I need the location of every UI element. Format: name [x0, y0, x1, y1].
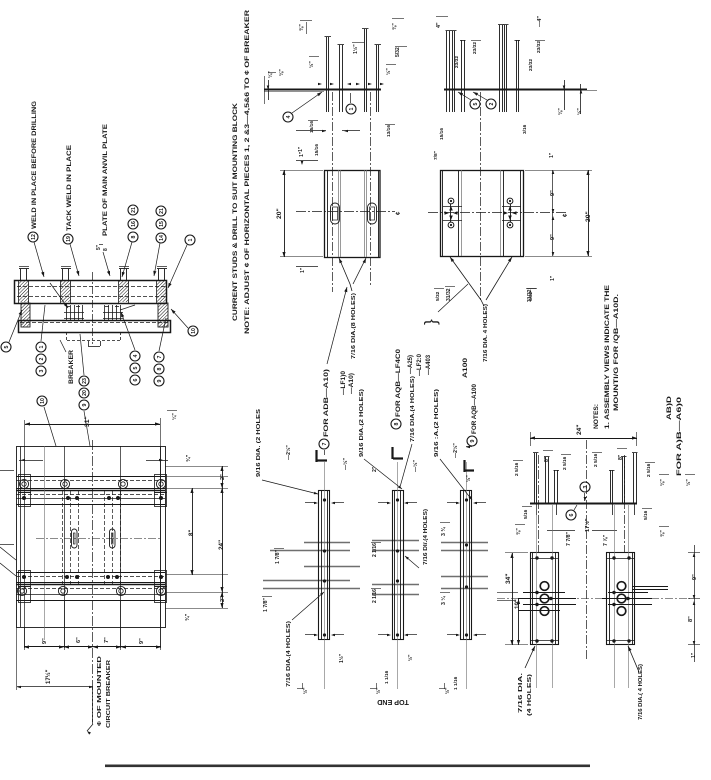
leader to 4 holes label right channel	[628, 646, 639, 672]
washer bolts row1	[19, 479, 28, 488]
svg-text:—A10): —A10)	[349, 373, 355, 394]
right vertical post	[158, 303, 168, 327]
svg-text:5: 5	[473, 102, 479, 105]
strip plate at x=319	[319, 491, 330, 640]
svg-text:¾": ¾"	[185, 454, 192, 462]
strip plate at x=461	[461, 491, 472, 640]
svg-text:¢ OF MOUNTED: ¢ OF MOUNTED	[97, 656, 103, 726]
svg-text:3 ¾: 3 ¾	[440, 527, 447, 536]
breaker stud cluster left	[66, 305, 68, 321]
arrow ticks at top corners	[19, 460, 43, 462]
horizontal centerline through slots	[36, 538, 160, 540]
bottom dim 1 inch	[296, 266, 318, 268]
center dash-dot vertical	[480, 92, 482, 300]
center dash-dot lines	[332, 92, 334, 292]
svg-text:6: 6	[133, 378, 139, 381]
svg-text:2 5/16: 2 5/16	[646, 463, 652, 477]
svg-text:23/32: 23/32	[536, 41, 542, 53]
balloon 9 label block	[467, 436, 477, 446]
strip bottom arrows	[305, 634, 316, 636]
angle assembly baseline	[530, 503, 637, 505]
svg-text:5: 5	[133, 366, 139, 369]
svg-text:BREAKER: BREAKER	[69, 349, 75, 384]
svg-text:7/8": 7/8"	[433, 151, 439, 160]
slot A in plan	[72, 529, 78, 548]
svg-text:CIRCUIT BREAKER: CIRCUIT BREAKER	[106, 659, 112, 728]
channel piece 2 rect	[441, 171, 524, 257]
svg-text:9: 9	[82, 403, 88, 406]
svg-text:(4 HOLES): (4 HOLES)	[527, 674, 533, 716]
svg-text:20": 20"	[585, 211, 592, 222]
washer bolts row4	[17, 586, 26, 595]
svg-text:1: 1	[39, 345, 45, 348]
breaker dashed outline	[66, 332, 68, 341]
horizontal dashed centerline channels	[497, 598, 690, 600]
svg-text:7 ⅞": 7 ⅞"	[603, 534, 609, 546]
bar3	[16, 572, 165, 574]
svg-text:7: 7	[322, 442, 328, 445]
view A: main horizontal bar (welded channel, side view)	[15, 281, 167, 304]
channel 2 bottom right	[607, 553, 635, 645]
svg-text:15/16: 15/16	[314, 144, 320, 156]
svg-text:15/16: 15/16	[309, 121, 315, 133]
leader from 9/16 mid label to strip3	[440, 459, 472, 500]
svg-text:½": ½"	[375, 687, 382, 694]
bolt dots row2	[22, 496, 26, 500]
balloon 10 right of assembly	[188, 326, 198, 336]
svg-text:½": ½"	[308, 61, 315, 68]
svg-text:½": ½"	[576, 108, 583, 115]
svg-text:9": 9"	[139, 638, 145, 644]
svg-text:½": ½"	[685, 479, 692, 486]
bar1 top channel flange	[16, 476, 165, 478]
balloon 6	[566, 510, 576, 520]
svg-text:8: 8	[103, 248, 109, 251]
dim 17-1/2 bottom	[16, 627, 18, 690]
leader line to anvil	[120, 305, 135, 310]
dim 20 inch left	[284, 170, 286, 257]
horizontal chain extension lines ch2	[608, 592, 648, 594]
svg-text:1": 1"	[550, 275, 556, 281]
svg-text:9": 9"	[692, 574, 698, 580]
svg-text:1": 1"	[299, 151, 305, 157]
balloon 5 at left edge	[1, 342, 11, 352]
stud pair lines above angle	[326, 37, 328, 112]
svg-text:7/16 DIA.: 7/16 DIA.	[518, 672, 524, 713]
svg-text:6": 6"	[76, 637, 82, 643]
svg-text:10: 10	[191, 328, 197, 334]
horizontal centerline of channel	[296, 211, 395, 213]
channel horizontal centerline	[428, 212, 568, 214]
horizontal chain extension lines ch1	[523, 592, 565, 594]
assembly studs verticals	[534, 453, 536, 503]
svg-text:3: 3	[583, 485, 589, 488]
leader lines to 8-holes note	[339, 258, 350, 284]
balloon 10 above plan view	[37, 396, 47, 406]
leader to 4 holes label left channel	[525, 646, 535, 668]
svg-text:1 1/16: 1 1/16	[384, 670, 390, 684]
piece 5 angle top edge line	[444, 89, 587, 91]
dim 34 left	[512, 553, 514, 645]
svg-text:1: 1	[188, 238, 194, 241]
svg-text:2": 2"	[220, 474, 226, 480]
svg-text:5/32: 5/32	[395, 47, 401, 57]
svg-text:7 7/8": 7 7/8"	[566, 531, 572, 546]
svg-text:10": 10"	[514, 599, 521, 609]
svg-text:—2½": —2½"	[452, 443, 459, 458]
svg-text:7": 7"	[104, 637, 110, 643]
left bolt plates	[19, 475, 31, 493]
svg-text:9": 9"	[550, 234, 556, 240]
svg-text:WELD IN PLACE BEFORE DRILLING: WELD IN PLACE BEFORE DRILLING	[32, 101, 38, 229]
strip bottom arrows	[378, 634, 389, 636]
svg-text:34": 34"	[505, 574, 512, 584]
balloon column 4 5 6	[130, 351, 140, 361]
svg-text:19: 19	[66, 236, 72, 242]
svg-text:⅜": ⅜"	[660, 530, 666, 537]
svg-text:½": ½"	[302, 687, 309, 694]
svg-text:3/16: 3/16	[522, 124, 528, 134]
svg-text:—4": —4"	[537, 16, 543, 27]
svg-text:⅜": ⅜"	[516, 528, 522, 535]
angle glyph symbols above strips	[315, 450, 317, 462]
svg-text:TACK WELD IN PLACE: TACK WELD IN PLACE	[67, 145, 73, 231]
svg-text:1": 1"	[298, 146, 304, 152]
svg-text:3 ¼: 3 ¼	[440, 596, 447, 605]
hatched weld zones on bar	[19, 281, 29, 302]
svg-text:9: 9	[470, 439, 476, 442]
gray horizontal piece lines band upper	[304, 542, 350, 544]
slot B in plan	[110, 529, 116, 548]
svg-text:9/16 :A.(2 HOLES): 9/16 :A.(2 HOLES)	[434, 389, 440, 457]
svg-text:23/32: 23/32	[454, 56, 460, 68]
svg-text:⅛": ⅛"	[558, 108, 564, 115]
balloon 1	[346, 104, 356, 114]
channel piece 1 rect (20 inch)	[325, 171, 381, 258]
svg-text:1": 1"	[691, 652, 697, 658]
dim 8 right	[192, 488, 194, 575]
svg-text:1": 1"	[549, 152, 555, 158]
strip top arrows	[447, 502, 458, 504]
balloon column 14 15 21	[156, 233, 166, 243]
svg-text:8": 8"	[618, 454, 624, 460]
svg-text:23/32: 23/32	[528, 59, 534, 71]
balloon 3	[580, 482, 590, 492]
svg-text:½": ½"	[407, 654, 414, 661]
svg-text:AB)D: AB)D	[667, 395, 673, 420]
svg-text:⅜": ⅜"	[299, 24, 305, 31]
svg-text:¾": ¾"	[184, 613, 191, 621]
svg-text:5": 5"	[96, 244, 102, 250]
gray horizontal piece lines band lower	[304, 566, 360, 568]
balloon column 1 2 3 lower left	[36, 342, 46, 352]
svg-text:2": 2"	[220, 596, 226, 602]
dim 2 bottom right	[222, 592, 224, 608]
svg-text:7/16 DIA.( 4 HOLES): 7/16 DIA.( 4 HOLES)	[638, 664, 644, 720]
plan center dash-dot vertical	[92, 440, 94, 722]
svg-text:31/32: 31/32	[446, 288, 452, 301]
short verticals below baseline	[536, 504, 538, 515]
svg-text:21: 21	[131, 207, 137, 213]
strip bottom arrows	[447, 634, 458, 636]
svg-text:1 7/8": 1 7/8"	[263, 597, 269, 612]
svg-text:¼": ¼"	[171, 413, 178, 420]
bolt dots row3	[22, 575, 26, 579]
leader from 9/16 label to strip2	[364, 459, 402, 489]
svg-text:23/32: 23/32	[472, 42, 478, 54]
svg-text:2 5/16: 2 5/16	[562, 456, 568, 470]
balloon 7 label block	[319, 439, 329, 449]
svg-text:2 5/16: 2 5/16	[514, 462, 520, 476]
left stub lines	[497, 592, 518, 594]
svg-text:2 1/16: 2 1/16	[372, 589, 378, 603]
svg-text:½": ½"	[444, 687, 451, 694]
balloon 12 with label WELD IN PLACE BEFORE DRILLING	[28, 232, 38, 242]
diagonal leader left edge	[0, 563, 16, 576]
svg-text:¼": ¼"	[267, 71, 274, 78]
strip top arrows	[305, 502, 316, 504]
svg-text:½": ½"	[465, 475, 472, 482]
svg-text:7/16 DI/.(4 HOLES): 7/16 DI/.(4 HOLES)	[423, 509, 429, 565]
svg-text:9: 9	[157, 379, 163, 382]
slot right in channel	[368, 203, 377, 224]
hole chain right bar	[507, 198, 513, 204]
svg-text:2 1/16: 2 1/16	[372, 543, 378, 557]
svg-text:9": 9"	[550, 190, 556, 196]
right dim column 9 8 1	[694, 545, 696, 662]
svg-text:⅜": ⅜"	[392, 23, 398, 30]
svg-text:7/16 DIA.(4 HOLES): 7/16 DIA.(4 HOLES)	[410, 376, 416, 442]
svg-text:FOR ADB—A10): FOR ADB—A10)	[323, 369, 330, 437]
slot left in channel	[331, 203, 340, 224]
svg-text:5/32: 5/32	[435, 291, 441, 301]
svg-text:1½": 1½"	[338, 653, 345, 663]
left vertical post	[21, 303, 30, 327]
leader line from stud cluster left	[50, 283, 68, 308]
piece 4 angle top edge line	[264, 89, 381, 91]
svg-text:31/32: 31/32	[527, 289, 533, 302]
svg-text:9": 9"	[42, 638, 48, 644]
vertical strip B dashed	[104, 491, 106, 585]
dash-dot verticals down to channels	[538, 455, 540, 553]
left bolt plates lower	[19, 571, 31, 587]
svg-text:1½": 1½"	[352, 44, 359, 54]
svg-text:17½": 17½"	[45, 669, 52, 684]
svg-text:8": 8"	[188, 530, 195, 536]
vertical strip A dashed	[62, 491, 64, 585]
svg-text:5: 5	[4, 345, 10, 348]
svg-text:8: 8	[131, 235, 137, 238]
svg-text:23: 23	[82, 378, 88, 384]
balloon column 7 8 9	[154, 352, 164, 362]
dim 2 top right	[222, 466, 224, 488]
svg-text:7/16 DIA.(8 HOLES): 7/16 DIA.(8 HOLES)	[351, 293, 357, 359]
svg-text:5/16: 5/16	[643, 510, 649, 520]
svg-text:24": 24"	[576, 425, 583, 435]
svg-text:1": 1"	[300, 267, 306, 273]
svg-text:FOR A)B—A6)0: FOR A)B—A6)0	[677, 396, 683, 476]
svg-text:4": 4"	[436, 22, 442, 28]
svg-text:16: 16	[131, 221, 137, 227]
anvil plate (lower bar)	[19, 321, 171, 333]
hole chain left bar	[448, 198, 454, 204]
svg-text:2 5/16: 2 5/16	[593, 453, 599, 467]
balloon 8 label block	[391, 419, 401, 429]
svg-text:2: 2	[39, 357, 45, 360]
dim 10 left	[518, 599, 520, 645]
balloon 5	[470, 99, 480, 109]
left end ticks of angle	[268, 80, 270, 100]
svg-text:FOR AQB—LF4C0: FOR AQB—LF4C0	[395, 349, 402, 417]
svg-text:15: 15	[159, 221, 165, 227]
svg-text:—A403: —A403	[426, 354, 432, 375]
dim 20 right	[588, 170, 590, 256]
svg-text:4: 4	[286, 115, 292, 118]
svg-text:TOP END: TOP END	[377, 698, 409, 707]
centerline arrow and label	[92, 687, 94, 724]
balloon 2	[486, 99, 496, 109]
dim 9 and 9 right	[552, 170, 554, 256]
breaker stud cluster right	[104, 305, 106, 321]
svg-text:20: 20	[82, 390, 88, 396]
bottom border rule	[105, 765, 590, 768]
svg-text:1 7/8": 1 7/8"	[275, 549, 281, 564]
dim 31 inch top	[25, 424, 160, 426]
bar4	[16, 588, 165, 590]
svg-text:2: 2	[489, 102, 495, 105]
studs on top of bar	[20, 269, 22, 280]
balloon column 8 16 21	[128, 232, 138, 242]
svg-text:3: 3	[39, 369, 45, 372]
svg-text:—2½": —2½"	[285, 445, 292, 460]
svg-text:12: 12	[31, 234, 37, 240]
svg-text:1: 1	[349, 107, 355, 110]
balloon 4	[283, 112, 293, 122]
top ticks dim 1 inch	[296, 160, 318, 162]
leader lines to 4-holes label	[450, 257, 481, 300]
svg-text:7/16 DIA.(4 HOLES): 7/16 DIA.(4 HOLES)	[286, 621, 292, 687]
strip plate at x=392	[393, 491, 404, 640]
svg-text:A100: A100	[463, 357, 469, 378]
svg-text:NOTES:: NOTES:	[593, 404, 600, 429]
svg-text:6: 6	[569, 513, 575, 516]
svg-text:NOTE: ADJUST ¢ OF HORIZONTAL P: NOTE: ADJUST ¢ OF HORIZONTAL PIECES 1, 2…	[244, 9, 251, 334]
bottom dim row 9 6 7 9	[24, 627, 26, 650]
svg-text:—LF2:0: —LF2:0	[417, 353, 423, 376]
svg-text:—LF1)0: —LF1)0	[341, 370, 347, 395]
long verticals through plan	[24, 446, 26, 648]
svg-text:}: }	[421, 319, 440, 325]
svg-text:FOR AQB—A100: FOR AQB—A100	[471, 384, 478, 434]
svg-text:½": ½"	[385, 68, 392, 75]
svg-text:24": 24"	[218, 540, 225, 550]
svg-text:10: 10	[40, 398, 46, 404]
dim 24 inch	[530, 438, 637, 440]
svg-text:9/16 DIA. (2 HOLES: 9/16 DIA. (2 HOLES	[256, 408, 262, 477]
svg-text:8": 8"	[544, 456, 550, 462]
svg-text:⅛": ⅛"	[279, 69, 285, 76]
dim 24 right	[222, 488, 224, 592]
svg-text:CURRENT STUDS & DRILL TO SUIT: CURRENT STUDS & DRILL TO SUIT MOUNTING B…	[232, 103, 239, 321]
bar2	[16, 494, 165, 496]
svg-text:15/16: 15/16	[439, 128, 445, 140]
stud top ticks	[533, 452, 539, 454]
svg-text:13/16: 13/16	[386, 125, 392, 137]
right end dim ticks	[564, 80, 566, 110]
svg-text:5/16: 5/16	[523, 509, 529, 519]
center line of assembly	[92, 272, 94, 344]
svg-text:⅛": ⅛"	[660, 479, 666, 486]
svg-text:4: 4	[133, 354, 139, 357]
arrow row y131	[296, 130, 326, 132]
arrow marks at stud bases	[318, 83, 322, 86]
left edge tick lines	[0, 470, 14, 472]
svg-text:7/16 DIA. 4 HOLES): 7/16 DIA. 4 HOLES)	[483, 304, 489, 362]
balloon 19 with label TACK WELD IN PLACE	[63, 234, 73, 244]
plan view outer rectangle	[17, 447, 166, 628]
svg-text:MOUNTI/G FOR /QB—A10D.: MOUNTI/G FOR /QB—A10D.	[613, 294, 620, 411]
leader from 7/16 mid label down	[400, 444, 412, 487]
right side extension lines	[165, 466, 228, 468]
svg-text:21: 21	[159, 208, 165, 214]
svg-text:20": 20"	[276, 208, 283, 219]
svg-text:8": 8"	[688, 616, 694, 622]
balloon 1 top right	[185, 235, 195, 245]
svg-text:14: 14	[159, 235, 165, 241]
balloon column 23 20 9	[79, 376, 89, 386]
svg-text:7: 7	[157, 355, 163, 358]
svg-text:PLATE OF MAIN ANVIL PLATE: PLATE OF MAIN ANVIL PLATE	[103, 124, 109, 236]
svg-text:1. ASSEMBLY VIEWS INDICATE THE: 1. ASSEMBLY VIEWS INDICATE THE	[604, 285, 611, 429]
svg-text:17½": 17½"	[584, 518, 591, 532]
strip top arrows	[378, 502, 389, 504]
svg-text:31": 31"	[84, 416, 91, 427]
svg-text:—½": —½"	[342, 457, 349, 470]
channel 1 bottom right	[531, 553, 559, 645]
svg-text:—A25): —A25)	[408, 355, 414, 374]
svg-text:9/16 DIA.(2 HOLES): 9/16 DIA.(2 HOLES)	[359, 389, 365, 457]
svg-text:1 1/16: 1 1/16	[453, 676, 459, 690]
svg-text:8: 8	[394, 422, 400, 425]
stud pairs above angle right view	[446, 31, 448, 112]
svg-text:—½": —½"	[412, 459, 419, 472]
tick lines through chains	[443, 206, 462, 208]
svg-text:8: 8	[157, 367, 163, 370]
